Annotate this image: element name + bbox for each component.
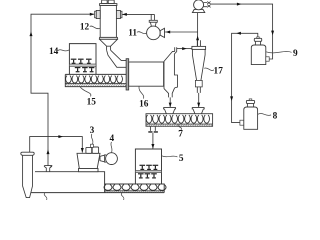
- svg-text:7: 7: [178, 130, 183, 140]
- svg-text:4: 4: [109, 134, 114, 144]
- svg-text:16: 16: [139, 100, 149, 110]
- svg-text:12: 12: [80, 22, 90, 32]
- svg-text:17: 17: [214, 67, 224, 77]
- svg-text:15: 15: [87, 98, 97, 108]
- svg-text:11: 11: [128, 28, 137, 38]
- svg-text:3: 3: [90, 126, 95, 136]
- svg-text:5: 5: [179, 154, 184, 164]
- svg-text:14: 14: [49, 47, 59, 57]
- svg-text:9: 9: [293, 49, 298, 59]
- svg-text:8: 8: [273, 112, 278, 122]
